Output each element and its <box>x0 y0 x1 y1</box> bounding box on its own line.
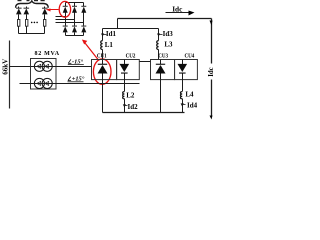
svg-text:Id4: Id4 <box>187 102 198 110</box>
wire Id1 branch <box>102 29 104 41</box>
svg-text:CU1: CU1 <box>97 53 107 60</box>
svg-text:L3: L3 <box>164 41 173 49</box>
label angle -15 <box>68 58 84 65</box>
svg-text:CU4: CU4 <box>185 53 195 60</box>
wire +15deg feeder under CU boxes <box>20 83 140 85</box>
svg-text:66kV: 66kV <box>2 59 10 75</box>
red callout ellipse around bridge diode D1 <box>59 1 70 17</box>
svg-text:Id1: Id1 <box>106 30 117 38</box>
bridge top bus <box>66 2 84 4</box>
bridge bottom bus <box>66 35 84 37</box>
wire CU4 bottom drop <box>182 80 184 92</box>
bottom bus of detail group <box>19 33 45 35</box>
diode D1 (bridge top leg a) <box>63 6 68 13</box>
overbrace <box>16 1 49 8</box>
AC phase line 1 <box>56 16 66 18</box>
svg-text:Idc: Idc <box>208 67 215 76</box>
delta symbol in W1 <box>37 64 41 68</box>
svg-text:Id3: Id3 <box>163 30 174 38</box>
delta symbol in W2 <box>45 64 49 68</box>
wire branch 3 <box>44 7 46 34</box>
thyristor CU3 <box>156 60 166 80</box>
label angle +15 <box>68 76 85 83</box>
delta symbol in W4 <box>45 81 49 85</box>
converter unit CU2 box <box>117 60 140 80</box>
wire CU1 bottom drop <box>102 80 104 113</box>
red callout ellipse around CU1 valve <box>93 59 111 84</box>
winding W4 circle <box>42 78 52 88</box>
inductor L3 <box>157 41 159 50</box>
wire branch 1 <box>18 7 20 34</box>
svg-text:Id2: Id2 <box>128 103 139 111</box>
delta symbol in W3 <box>37 81 41 85</box>
thyristor Vn (detail branch 3) <box>42 8 48 15</box>
bridge leg b wire <box>74 3 76 36</box>
inductor L1 <box>101 41 103 50</box>
wire CU2 bottom drop <box>124 80 126 92</box>
wire Id3 branch <box>158 29 160 41</box>
svg-text:82 MVA: 82 MVA <box>35 51 60 57</box>
converter unit CU3 box <box>151 60 175 80</box>
resistor branch 2 <box>26 20 28 27</box>
transformer T1 box <box>31 59 57 90</box>
svg-text:L4: L4 <box>185 91 194 99</box>
red callout arrow from bridge to thyristor group <box>46 9 59 12</box>
inductor L2 <box>123 92 125 99</box>
arrow Id2 <box>123 104 126 107</box>
winding W1 circle <box>34 61 44 71</box>
wire CU2-CU3 link <box>140 61 151 63</box>
66kV bus bar <box>9 41 11 109</box>
wire branch 2 <box>26 7 28 34</box>
thyristor CU1 <box>98 60 108 80</box>
arrow Id4 <box>181 103 184 106</box>
bottom DC return bus <box>103 112 185 114</box>
cut-off caption fragments at image top <box>18 0 45 1</box>
AC phase line 3 <box>56 22 84 24</box>
svg-text:L1: L1 <box>105 41 114 49</box>
wire bus to transformer <box>10 66 31 68</box>
arrow Id3 <box>157 34 160 37</box>
converter unit CU4 box <box>175 60 198 80</box>
right DC down-lead <box>210 19 213 120</box>
diode CU2 <box>120 60 130 80</box>
wire -15deg feeder to CU1 <box>31 66 92 68</box>
arrow Id1 <box>101 34 104 37</box>
diode D2 (bridge bottom leg c) <box>81 26 86 33</box>
wire below L2 <box>124 99 126 113</box>
ellipsis dots between branches <box>31 22 38 24</box>
AC phase line 2 <box>56 19 75 21</box>
winding W2 circle <box>42 61 52 71</box>
red callout arrow from CU1 to bridge <box>82 40 99 61</box>
bridge leg c wire <box>83 3 85 36</box>
thyristor V2 (detail branch 2) <box>24 8 30 15</box>
inductor L4 <box>180 92 182 99</box>
node bus y28 <box>103 28 159 30</box>
svg-text:L2: L2 <box>126 91 135 99</box>
diode CU4 <box>178 60 188 80</box>
wire riser <box>117 19 119 29</box>
resistor branch 3 <box>44 20 46 27</box>
wire below L4 <box>182 99 184 113</box>
diode D3 (bridge top leg b) <box>72 6 77 13</box>
thyristor V1 (detail branch 1) <box>16 8 22 15</box>
bridge leg a wire <box>65 3 67 36</box>
diode D4 (bridge bottom leg a) <box>63 26 68 33</box>
svg-text:CU3: CU3 <box>158 53 168 60</box>
winding W3 circle <box>34 78 44 88</box>
converter unit CU1 box <box>92 60 117 80</box>
svg-text:CU2: CU2 <box>126 53 136 60</box>
wire CU3 bottom drop <box>160 80 162 113</box>
diode D6 (bridge bottom leg b) <box>72 26 77 33</box>
diode D5 (bridge top leg c) <box>81 6 86 13</box>
main top DC bus <box>118 18 212 20</box>
resistor branch 1 <box>18 20 20 27</box>
